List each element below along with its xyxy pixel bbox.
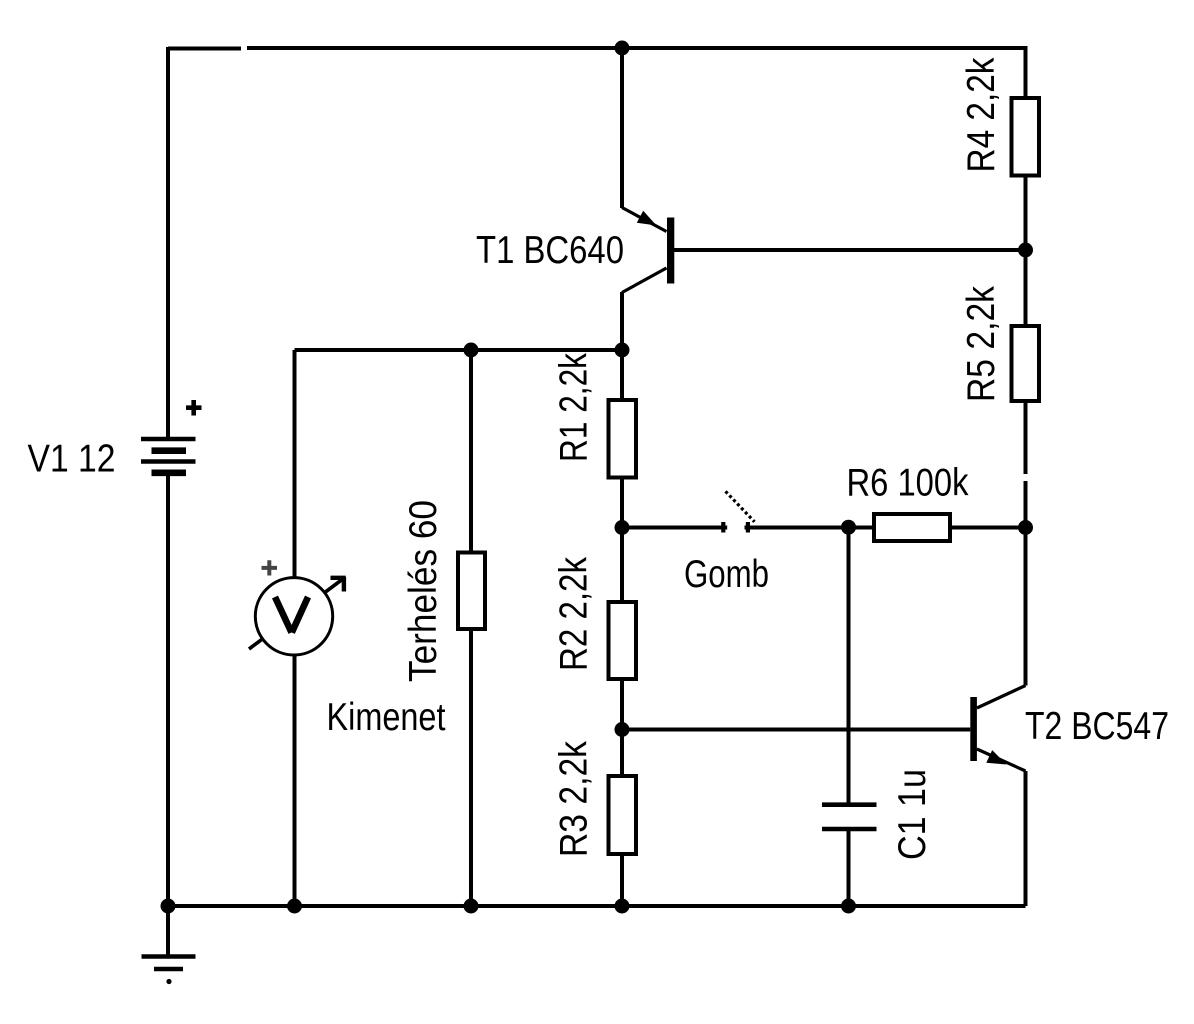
wire voltmeter top <box>293 350 297 578</box>
wire T1 base lead <box>674 248 1026 252</box>
voltmeter V letter <box>275 597 308 633</box>
svg-text:C1 1u: C1 1u <box>891 769 934 860</box>
resistor R2 2,2k <box>609 602 637 679</box>
transistor T1 BC640 <box>622 208 674 293</box>
junction top rail T1 <box>615 41 630 56</box>
junction R5 switch right <box>1018 520 1033 535</box>
wire R5 top <box>1024 250 1028 326</box>
junction voltmeter bottom <box>287 899 302 914</box>
wire R2 top <box>620 528 624 603</box>
svg-text:T1 BC640: T1 BC640 <box>476 229 624 272</box>
svg-text:R6 100k: R6 100k <box>847 462 970 505</box>
wire T1 collector down <box>620 292 624 350</box>
wire row y350 <box>295 348 623 352</box>
svg-text:Terhelés 60: Terhelés 60 <box>402 500 445 682</box>
junction ground rail <box>161 899 176 914</box>
wire T2 emitter down <box>1024 771 1028 906</box>
wire T2 collector up <box>1024 528 1028 686</box>
resistor R3 2,2k <box>609 776 637 854</box>
wire R3 bottom <box>620 854 624 906</box>
resistor R4 2,2k <box>1012 98 1040 176</box>
junction switch left <box>615 520 630 535</box>
svg-text:R1 2,2k: R1 2,2k <box>553 352 596 462</box>
svg-text:T2 BC547: T2 BC547 <box>1025 705 1169 748</box>
ground <box>142 906 196 984</box>
capacitor C1 1u <box>822 805 877 829</box>
wire bottom rail <box>168 904 1026 908</box>
svg-text:R5 2,2k: R5 2,2k <box>960 285 1003 402</box>
junction C1 top <box>841 520 856 535</box>
voltmeter arrow shaft <box>249 579 344 650</box>
svg-text:V1 12: V1 12 <box>28 438 116 481</box>
wire R1 top <box>620 350 624 400</box>
wire terheles bottom <box>469 629 473 906</box>
transistor T1 emitter wire top <box>620 48 624 208</box>
wire T2 base row <box>622 728 970 732</box>
resistor R1 2,2k <box>609 400 637 478</box>
junction T2 base R3 <box>615 722 630 737</box>
battery V1 12 <box>141 439 196 473</box>
wire C1 top <box>847 528 851 805</box>
junction terheles bottom <box>464 899 479 914</box>
wire R2 bottom <box>620 679 624 730</box>
battery V1 plus sign <box>186 400 202 416</box>
resistor R5 2,2k <box>1012 326 1040 401</box>
junction R1 top <box>615 343 630 358</box>
wire top rail right segment <box>247 48 1026 98</box>
svg-text:R4 2,2k: R4 2,2k <box>960 57 1003 173</box>
svg-text:R3 2,2k: R3 2,2k <box>553 740 596 857</box>
resistor Terheles 60 <box>458 553 485 630</box>
switch Gomb contact right <box>746 522 750 533</box>
junction C1 bottom <box>841 899 856 914</box>
wire top rail left segment <box>168 47 241 51</box>
wire R1 bottom <box>620 478 624 528</box>
svg-text:R2 2,2k: R2 2,2k <box>553 556 596 671</box>
wire R4 top <box>1024 48 1028 98</box>
wire R6 right <box>950 526 1026 530</box>
svg-text:Kimenet: Kimenet <box>327 696 446 739</box>
wire R5 bottom upper part <box>1024 401 1028 474</box>
wire switch right <box>745 526 875 530</box>
svg-text:Gomb: Gomb <box>684 553 769 596</box>
wire voltmeter bottom <box>293 655 297 906</box>
wire C1 bottom <box>847 829 851 906</box>
wire left rail lower <box>166 476 170 906</box>
resistor R6 100k <box>874 514 950 541</box>
switch Gomb contact left <box>721 522 725 533</box>
wire R3 top <box>620 730 624 777</box>
switch Gomb blade <box>726 491 755 522</box>
junction terheles top <box>464 343 479 358</box>
wire R4 bottom <box>1024 176 1028 251</box>
voltmeter arrowhead <box>331 577 346 592</box>
voltmeter plus sign <box>262 560 278 575</box>
transistor T2 BC547 <box>970 686 1025 772</box>
wire switch left <box>622 526 727 530</box>
junction R4 R5 base <box>1018 243 1033 258</box>
wire terheles top <box>469 350 473 553</box>
junction R3 bottom <box>615 899 630 914</box>
wire R5 bottom lower part <box>1024 481 1028 528</box>
voltmeter V1 circle <box>255 578 332 655</box>
wire left rail upper <box>166 47 170 439</box>
